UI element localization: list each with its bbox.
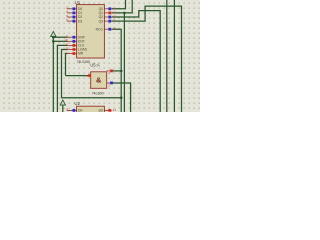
wire bus line 2 — [166, 0, 168, 112]
svg-text:14: 14 — [113, 108, 117, 112]
wire LOAD from U1.LOAD down then right to RCO line — [62, 49, 122, 97]
IC U2 (bottom, cut off at image edge) — [67, 109, 112, 111]
wire CLK from U1.CLK down to bottom edge — [57, 45, 67, 112]
wire Q3 up, right, down the last bus line — [112, 6, 182, 112]
wire Q0 up to top edge — [112, 0, 126, 9]
wire Q2 up, right, down the first bus line — [112, 11, 161, 112]
svg-text:11: 11 — [113, 19, 116, 23]
junction VCC/ENP — [52, 36, 55, 39]
gate input state squares — [110, 70, 113, 73]
gate U5:A 74LS00 (mirrored, output left) — [88, 71, 111, 83]
wire VCC vertical down to bottom edge — [52, 37, 54, 112]
junction VCC/ENT — [52, 40, 55, 43]
junction gate input1 on RCO line — [120, 70, 123, 73]
junction Q1 branch — [123, 12, 126, 15]
power terminal bottom (arrow up) — [60, 100, 65, 105]
svg-text:D3: D3 — [78, 19, 82, 23]
svg-text:U2: U2 — [74, 101, 80, 106]
wire gate output to LOAD line — [66, 75, 91, 77]
svg-text:D0: D0 — [78, 109, 82, 112]
wire Q1 branch down to bottom edge — [123, 13, 125, 112]
U1 pin stubs left — [67, 9, 112, 54]
wire VCC to U1.ENP — [53, 36, 67, 38]
svg-text:1: 1 — [66, 50, 68, 54]
IC U1 74LS160 body — [77, 5, 105, 58]
wire gate input2 right then down — [111, 83, 131, 112]
svg-text:U1: U1 — [75, 0, 81, 5]
wire Q1 up to top edge — [112, 0, 133, 13]
svg-text:MR: MR — [78, 52, 84, 56]
U1 pin numbers — [64, 6, 116, 55]
svg-text:U5:A: U5:A — [90, 62, 100, 67]
svg-text:74LS160: 74LS160 — [77, 60, 91, 64]
svg-text:2: 2 — [108, 83, 110, 87]
wire RCO from U1.RCO right then down to bottom edge — [112, 29, 122, 112]
wire VCC to U1.ENT — [53, 40, 67, 42]
svg-text:RCO: RCO — [96, 27, 104, 31]
svg-text:Q3: Q3 — [99, 19, 104, 23]
svg-text:1: 1 — [108, 71, 110, 75]
gate output state square — [88, 74, 91, 77]
U1 logic state squares — [73, 7, 112, 54]
junction MR joins RCO line — [120, 96, 123, 99]
svg-text:3: 3 — [86, 74, 88, 78]
U1 pin names — [78, 7, 103, 56]
svg-text:Q0: Q0 — [98, 109, 103, 112]
svg-text:15: 15 — [113, 27, 117, 31]
wire bus line 3 — [173, 0, 175, 112]
svg-text:6: 6 — [66, 18, 68, 22]
svg-text:&: & — [96, 76, 102, 85]
U2 state squares — [73, 109, 76, 112]
power terminal VCC top (arrow up) — [51, 31, 56, 36]
wire MR from U1.MR down to gate output — [66, 54, 68, 76]
svg-text:74LS00: 74LS00 — [92, 92, 104, 96]
wire gate input1 to Q-vertical — [111, 70, 121, 72]
svg-text:3: 3 — [66, 107, 68, 111]
wire power stem bottom — [62, 105, 64, 113]
